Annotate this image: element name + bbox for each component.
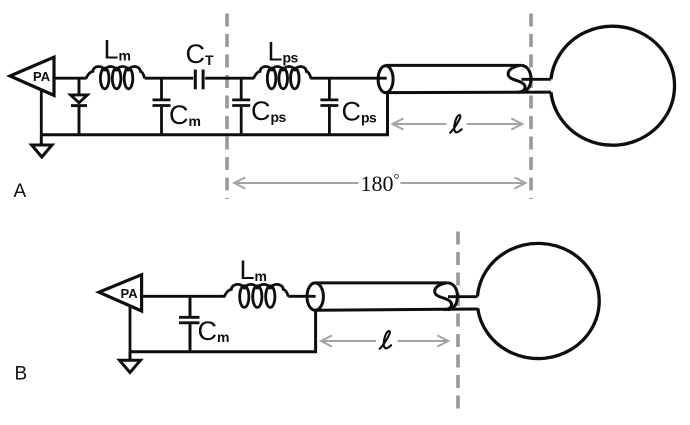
inductor Lm (circuit B)	[224, 284, 288, 307]
capacitor Cm shunt (circuit A)	[153, 78, 171, 135]
svg-text:180°: 180°	[361, 171, 400, 196]
wire: Lps to coax with Cps2 junction (circuit A)	[311, 77, 387, 80]
wire: CT to Lps with Cps1 junction (circuit A)	[205, 77, 254, 80]
svg-text:Lm: Lm	[240, 255, 267, 285]
dimension arrow l (circuit A)	[393, 118, 523, 129]
wire: coax centre conductor to loop (circuit B)	[448, 295, 477, 298]
ground symbol (circuit B)	[120, 352, 141, 373]
wire: coax centre conductor to loop (circuit A)	[522, 78, 551, 81]
wire: PA bottom to ground rail (circuit B)	[129, 303, 132, 352]
label script ell (circuit B)	[380, 331, 391, 349]
svg-text:Cm: Cm	[169, 100, 201, 130]
ground symbol (circuit A)	[32, 135, 52, 157]
svg-text:PA: PA	[121, 286, 139, 301]
dimension arrow l (circuit B)	[321, 335, 448, 346]
svg-text:Cm: Cm	[198, 316, 230, 346]
ground rail (circuit A)	[41, 92, 387, 135]
wire: PA bottom to ground rail (circuit A)	[40, 86, 43, 135]
loop antenna coil (circuit A)	[551, 26, 675, 145]
capacitor Cps first shunt (circuit A)	[232, 78, 250, 135]
capacitor Cm shunt (circuit B)	[179, 296, 200, 351]
dashed line (coil plane, circuit B)	[456, 232, 460, 415]
op-amp PA U2 (power amplifier, circuit B)	[99, 275, 142, 311]
coaxial cable (circuit B)	[307, 283, 478, 310]
svg-text:Cps: Cps	[251, 96, 286, 126]
svg-text:PA: PA	[33, 69, 51, 84]
label script ell (circuit A)	[450, 115, 461, 133]
coaxial cable (circuit A)	[378, 65, 551, 92]
wire: Lm to CT with Cm junction (circuit A)	[145, 77, 194, 80]
loop antenna coil (circuit B)	[477, 243, 599, 358]
inductor Lm (circuit A)	[86, 67, 145, 89]
capacitor Cps second shunt (circuit A)	[320, 78, 338, 135]
dimension arrow 180 degrees (circuit A)	[234, 177, 525, 188]
svg-text:Lm: Lm	[104, 35, 131, 65]
dashed line (phase shifter left boundary, circuit A)	[225, 14, 229, 200]
svg-text:CT: CT	[186, 39, 215, 69]
dashed line (coil plane, circuit A)	[529, 14, 533, 200]
wire: PA output to Lm (circuit A)	[54, 77, 87, 80]
diode D1 (circuit A)	[71, 78, 88, 135]
svg-text:A: A	[14, 181, 27, 202]
wire: Lm to coax (circuit B)	[288, 295, 315, 298]
capacitor CT series (circuit A)	[195, 70, 203, 90]
op-amp PA U1 (power amplifier, circuit A)	[10, 57, 54, 95]
wire: PA output to Lm (circuit B)	[142, 295, 226, 298]
svg-text:Lps: Lps	[268, 36, 299, 66]
ground rail (circuit B)	[130, 310, 316, 352]
svg-text:B: B	[15, 363, 28, 384]
inductor Lps (circuit A)	[254, 67, 311, 89]
svg-text:Cps: Cps	[342, 97, 377, 127]
